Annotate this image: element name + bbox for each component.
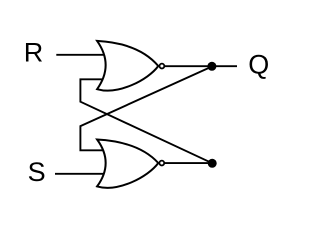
NOR gate U1 inversion bubble — [160, 64, 165, 69]
node Q junction dot (top) — [207, 62, 216, 71]
wire S input — [55, 173, 103, 175]
NOR gate U2 inversion bubble — [159, 161, 164, 166]
wire feedback from Q-bar node to top gate lower input (horiz, vert, diagonal) — [80, 79, 212, 163]
wire feedback from Q node to bottom gate upper input (diagonal, vert, horiz) — [80, 66, 212, 150]
NOR gate U1 (top) body — [97, 41, 158, 91]
NOR gate U2 (bottom) body — [97, 140, 158, 188]
wire top NOR output to Q — [163, 65, 237, 67]
svg-text:R: R — [24, 38, 44, 68]
svg-text:Q: Q — [248, 49, 269, 79]
wire bottom NOR output to node — [163, 162, 212, 164]
node Q-bar junction dot (bottom) — [208, 159, 217, 168]
svg-text:S: S — [28, 157, 46, 187]
wire R input — [56, 54, 104, 56]
